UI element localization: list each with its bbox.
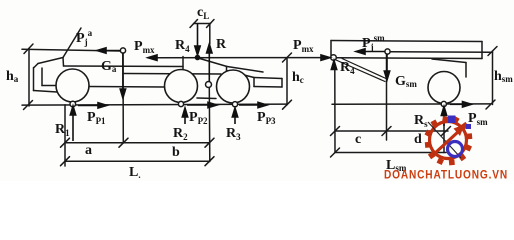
svg-text:Rs: Rs (414, 113, 428, 129)
trailer force line at node (390, 51, 493, 54)
svg-text:hc: hc (292, 70, 304, 85)
logo watermark gear (424, 116, 472, 166)
force R_2 arrow (184, 115, 186, 124)
svg-text:Ga: Ga (101, 59, 117, 74)
trailer fender vertical (465, 63, 467, 78)
force R_4 trailer arrow (331, 61, 336, 70)
saddle front vertical (182, 57, 184, 74)
svg-text:Pmx: Pmx (134, 39, 155, 55)
drawbar diagonal upper (342, 59, 386, 79)
trailer bed top (331, 41, 482, 42)
rear bracket left (253, 78, 255, 87)
grill vertical (41, 68, 43, 86)
svg-text:Psm: Psm (468, 111, 488, 127)
svg-text:R: R (216, 37, 227, 52)
cab top circle node (120, 48, 125, 53)
wheel 2 (165, 70, 198, 103)
svg-text:Pja: Pja (76, 28, 93, 47)
svg-text:c: c (355, 132, 361, 147)
body bottom line front (42, 85, 57, 87)
dimension c-d line (335, 130, 448, 132)
dimension a-b line (65, 142, 210, 144)
svg-text:Gsm: Gsm (395, 74, 417, 89)
force P_j^sm arrow (363, 51, 385, 53)
tick L_sm left (331, 148, 340, 157)
front axle extension (64, 105, 66, 166)
force P_mx trailer arrowhead (321, 55, 330, 60)
svg-text:ha: ha (6, 69, 19, 84)
dimension h_a line (28, 49, 30, 107)
wheel 3 contact circle (232, 102, 237, 107)
trailer bed left (330, 41, 332, 57)
logo blue square top (448, 116, 456, 124)
logo blue circle (448, 142, 463, 157)
svg-text:PP1: PP1 (87, 110, 106, 126)
svg-text:Pjsm: Pjsm (362, 33, 385, 52)
truck cab roof (38, 58, 63, 64)
force R_3 arrow (234, 115, 236, 124)
bed step (226, 67, 228, 71)
tick b right (205, 138, 214, 147)
tick c_L left (190, 20, 198, 28)
body top line (64, 65, 184, 68)
trailer fender slant (432, 59, 466, 63)
svg-text:Pmx: Pmx (293, 38, 314, 54)
svg-text:R4: R4 (175, 38, 190, 54)
cab back (62, 58, 65, 67)
wheel 1 (56, 69, 89, 102)
force R_sm arrow (443, 114, 445, 126)
force P_P3 arrow (239, 104, 259, 106)
svg-text:a: a (85, 143, 92, 158)
force G_sm arrow (386, 54, 388, 72)
label leader line (63, 28, 81, 58)
gear teeth (424, 116, 472, 165)
tick a-b middle (119, 138, 128, 147)
saddle vertical extension (208, 88, 211, 162)
wheel 1 contact circle (70, 101, 76, 107)
tick c_L right (207, 20, 215, 28)
svg-text:L.: L. (129, 165, 141, 180)
dimension L_sm line (335, 152, 446, 154)
svg-text:R1: R1 (55, 122, 70, 138)
svg-text:R2: R2 (173, 126, 188, 142)
trailer ground line (332, 103, 491, 105)
P_mx line truck-to-trailer (155, 57, 324, 59)
dimension h_c line (286, 58, 288, 105)
logo needle (433, 131, 459, 155)
drawbar diagonal lower (336, 60, 385, 82)
trailer wheel contact circle (441, 101, 446, 106)
rear bracket top (254, 78, 282, 79)
tick c left (331, 127, 340, 136)
logo blue square right (466, 124, 471, 129)
hitch vertical extension (334, 68, 336, 153)
front bottom line (34, 91, 58, 93)
bogie frame line (197, 97, 216, 100)
force G_a arrow (122, 53, 124, 90)
wheel 2 contact circle (178, 101, 183, 106)
bed slant B (227, 71, 255, 78)
tick c-d middle (382, 127, 391, 136)
tick L right (205, 157, 214, 166)
tick h_c top (283, 53, 292, 62)
gear ring (430, 122, 467, 159)
trailer wheel (428, 72, 460, 104)
dimension h_sm line (492, 51, 494, 105)
dimension L line (65, 160, 210, 162)
svg-text:hsm: hsm (494, 69, 513, 84)
saddle circle (206, 82, 212, 88)
top force line through cab (22, 49, 121, 51)
svg-text:DOANCHATLUONG.VN: DOANCHATLUONG.VN (384, 168, 508, 182)
front bumper vertical (33, 68, 35, 91)
application dot (195, 55, 201, 61)
svg-text:PP3: PP3 (257, 110, 276, 126)
G_a vertical extension (122, 53, 124, 143)
wheel 3 (217, 70, 250, 103)
force P_P1 arrow (78, 104, 99, 106)
tick trailer ground right (486, 100, 495, 109)
svg-text:R3: R3 (226, 126, 241, 142)
logo black diagonal (428, 122, 461, 158)
bed slant upper (198, 58, 227, 67)
tick on h_a top (24, 44, 33, 54)
tick h_sm top (488, 47, 497, 56)
force R_1 arrow (72, 113, 74, 141)
cab front curve (34, 64, 38, 68)
hitch circle (331, 55, 337, 61)
force P_j^a arrow (104, 50, 121, 52)
svg-text:b: b (172, 145, 180, 160)
tick ground right end (283, 100, 292, 109)
bed slant A (227, 67, 263, 73)
tick on h_a bottom (24, 101, 33, 110)
rear bracket bottom (254, 86, 282, 89)
G_sm vertical extension (386, 54, 388, 140)
force arrows with solid heads (70, 24, 471, 142)
force P_sm arrow (450, 103, 464, 105)
force R truck arrow (208, 52, 210, 82)
force R_4 truck arrow (197, 24, 199, 48)
tick L left (61, 157, 70, 166)
svg-text:d: d (414, 132, 422, 147)
force P_P2 arrow (187, 104, 209, 106)
body bottom line middle (89, 86, 164, 89)
trailer node circle (385, 49, 390, 54)
svg-text:R4: R4 (340, 60, 355, 76)
trailer wheel vertical extension (443, 107, 445, 153)
tick d right (442, 127, 451, 136)
svg-text:cL: cL (197, 5, 209, 21)
dimension c_L line (194, 23, 211, 25)
trailer bed right (481, 42, 483, 59)
tick a left (61, 138, 70, 147)
svg-text:PP2: PP2 (189, 110, 208, 126)
trailer bed bottom (337, 57, 483, 60)
truck ground line (22, 104, 287, 105)
rear bracket right (281, 79, 283, 88)
R extension upper (209, 24, 211, 45)
chassis line (124, 73, 221, 76)
force P_mx truck arrow (148, 55, 157, 60)
